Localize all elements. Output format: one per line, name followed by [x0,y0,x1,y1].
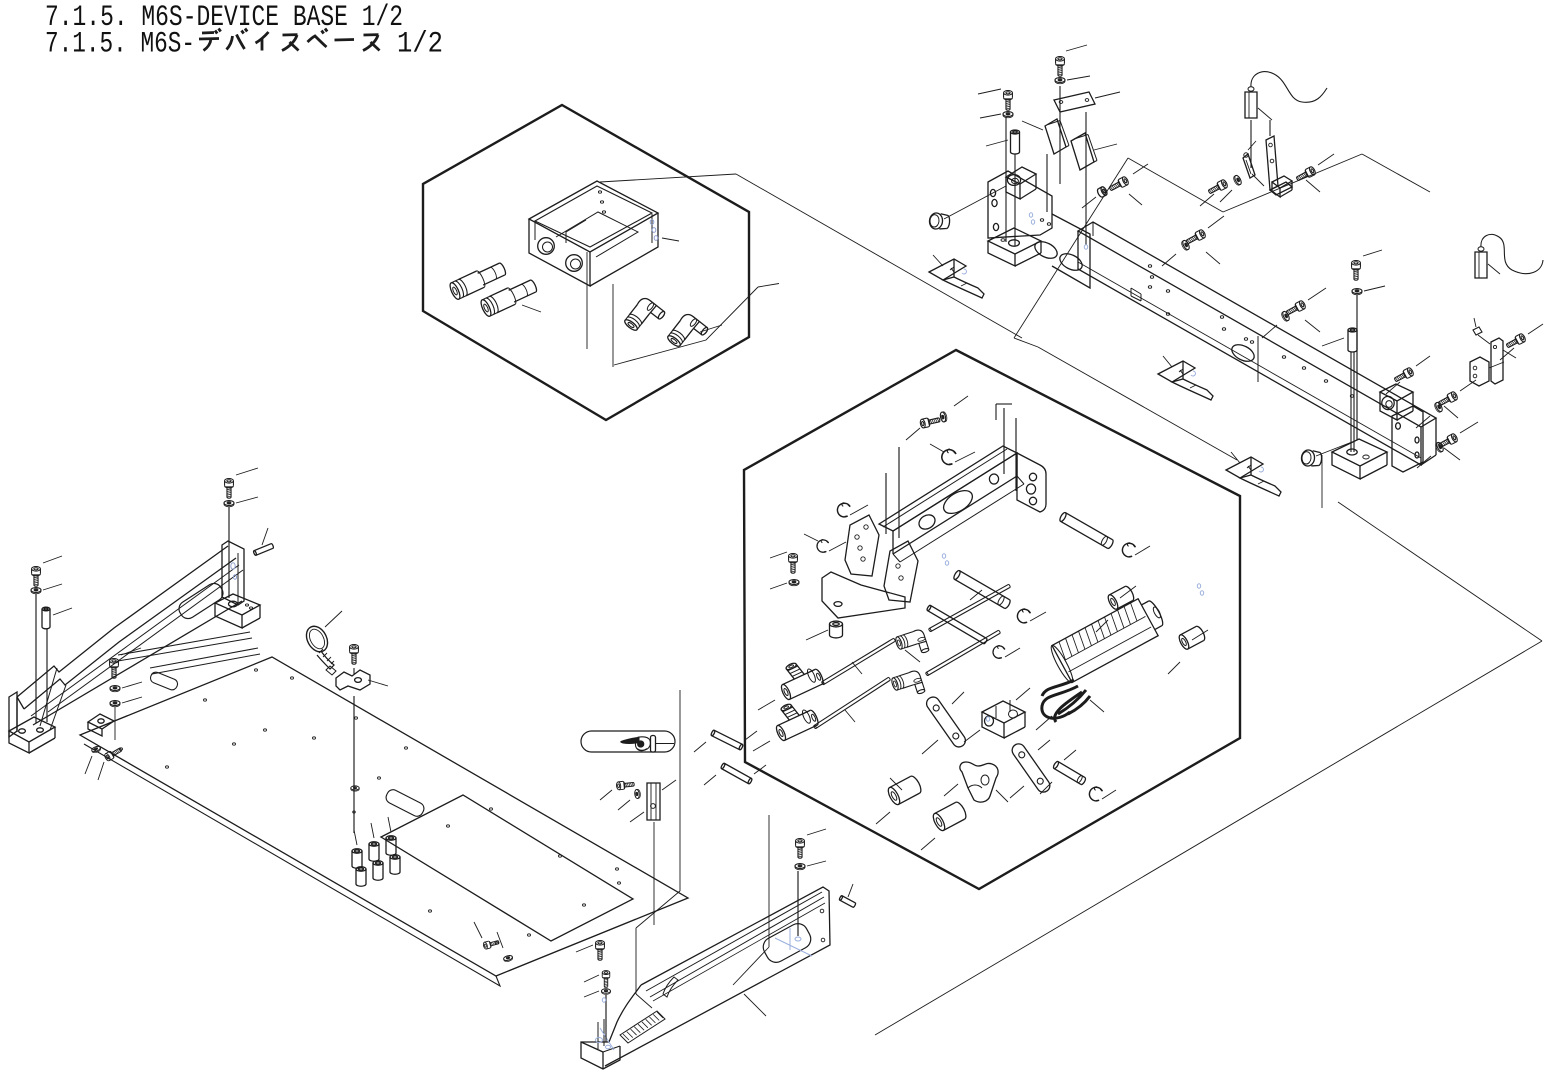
washer G1 [1433,401,1443,413]
e-clip 3 [816,538,829,553]
washer D1 [1180,239,1190,251]
roller 3 [886,774,923,806]
leader H1 [1528,324,1543,334]
standoff K [42,607,50,629]
plate holes [255,669,258,671]
link 2 [1010,741,1053,794]
plate slot 2 [384,788,426,819]
tee fitting 1 [773,654,825,700]
sensor 1 [1245,92,1257,118]
leaders P1 [807,829,826,835]
dot N [353,811,356,813]
screw G0 [1393,367,1415,384]
axis N [353,668,355,674]
sub panel [381,795,633,941]
pin J [253,543,274,555]
L-bracket assy [1266,136,1278,190]
left rail [17,546,228,697]
e-clip 1 [940,447,957,465]
title line 2 kana [199,29,221,51]
washer F1 [1352,289,1362,295]
cam leaders [944,784,958,796]
fitting leaders [758,700,775,710]
leaders B1 [1066,45,1087,51]
screw H1 [1505,333,1527,350]
link leaders 2 [1010,786,1024,798]
washer L2 [110,686,120,692]
elbow fitting 2 [666,312,709,356]
washer C1 [1232,174,1242,186]
panel zigzag left [679,690,681,891]
e-clip 2 [836,502,851,518]
leaders C1 [1200,194,1214,206]
e-clip 6 [1120,541,1136,558]
washer I2 [789,580,799,586]
clevis leaders [1016,688,1030,700]
screw G1 [1437,391,1459,408]
leader standoff K [53,608,72,615]
axes C [1250,120,1252,168]
clevis [982,701,1025,723]
clevis pin 3 [1059,512,1115,550]
leader elbow2 [700,325,722,332]
leader fitting2 [522,305,541,312]
screw Q1 [596,941,605,961]
screw B1 [1056,57,1065,77]
screw D2 [1108,176,1130,193]
knob2 leader [1316,442,1352,456]
axes K [35,594,37,723]
roller 2 [1177,625,1206,651]
hand bubble [581,731,675,752]
clip H [1473,327,1482,335]
straight fitting 1 [448,260,508,301]
actuator cable [1042,680,1090,722]
screw I2 [789,554,798,574]
screw K1 [32,567,41,587]
link 1 [924,695,968,750]
leaders D1 [1162,254,1176,266]
washer P1 [795,864,805,870]
hexagon callout B [744,350,1240,889]
tee fitting 2 [768,695,820,741]
dowel pin 2 leaders [704,775,716,785]
leader K1 [43,556,62,563]
washer N2 [351,786,360,791]
plate screw small [483,939,500,950]
screw L1 [110,659,119,679]
washer I1 [939,411,947,422]
leader pin J [262,528,268,545]
leaders G1 [1460,380,1476,391]
screw B2 [1004,91,1013,111]
washer B1 [1055,78,1065,84]
cable tie [302,623,331,656]
pin5 leaders [1064,750,1076,760]
far right block [1470,357,1489,386]
main rail [1078,222,1436,427]
tube 1 [821,638,895,685]
clamp L [88,714,114,729]
hexagon callout A [423,105,749,420]
standoff B [1011,130,1020,154]
leader standoff B [986,140,1008,146]
left assembly block [988,171,1052,238]
tube 2 [928,584,1010,632]
leader L [121,648,141,655]
mount strips [118,632,250,655]
leaders D2 [1082,197,1096,208]
reed switch 1 [1243,154,1255,178]
gusset leader 2 [1163,356,1172,367]
clevis pin 2 [926,605,987,644]
e-clip 4 [1015,607,1031,624]
washer E1 [1280,310,1290,322]
gusset bracket 3 [1226,457,1281,496]
axis F [1356,295,1358,440]
axis lines B [1005,117,1007,242]
roller 1 [1106,585,1135,611]
plate flange [84,744,500,986]
washer B2 [1003,112,1013,118]
slab 2 [1071,133,1094,170]
thumb knob 2 [1301,449,1322,467]
gusset bracket 2 [1158,361,1213,400]
cam [960,762,998,802]
leader G0 [1386,382,1400,394]
sensor plate bar [1054,92,1095,112]
clamp N [336,670,370,690]
screw I1 [920,415,941,428]
screw G2 [1437,433,1459,450]
tube 4 [925,630,1000,676]
screw Q2 [602,971,610,988]
leaders Q [576,945,593,952]
knob leader [944,186,1006,219]
clevis pin 1 [953,570,1012,610]
plate slot 1 [149,671,179,692]
reed switch 2 [647,783,660,820]
screw D1 [1185,229,1207,246]
plate washer small [503,955,513,963]
link leaders 1 [922,740,938,754]
slab 1 [1045,119,1066,154]
standoff D [1348,328,1357,352]
leaders E1 [1262,325,1277,338]
leaders M [85,756,92,774]
tall rod [1350,352,1352,452]
junction box [529,181,658,252]
thumb knob [929,212,950,230]
pin 5 [1053,761,1087,786]
plate small leaders [474,922,482,938]
leader I1 [906,428,920,440]
leader pin R [848,884,853,897]
roller leaders 2 [876,812,890,824]
dowel pin 2 [720,763,752,784]
channel frame [879,446,1017,531]
leaders F1 [1363,250,1382,256]
leader from box [600,174,736,182]
svg-text:7.1.5. M6S-: 7.1.5. M6S- [45,28,195,62]
cable leaders [1036,716,1052,730]
washer Q2 [601,989,610,995]
panel outline 2 [1128,158,1223,212]
far right plate [1491,338,1503,384]
screw M2 [104,746,123,762]
gusset leader 3 [1231,452,1240,463]
washer S1 [634,789,640,799]
screw E1 [1285,300,1307,317]
screw S1 [616,780,634,790]
spacer leader [806,630,828,640]
screw C1 [1207,179,1229,196]
washer K1 [31,588,41,594]
blue witness marks [1029,213,1032,217]
pin R [839,895,856,907]
roller 4 [931,800,968,832]
elbow fitting 1 [623,296,666,340]
leader to elbow [614,287,758,365]
gusset bracket 1 [929,259,984,298]
svg-text:1/2: 1/2 [397,28,443,62]
nut D2 [1096,186,1108,198]
washer G2 [1434,441,1444,453]
actuator [1048,593,1169,685]
elbow fitting 3 [894,628,929,660]
panel outline 3 [1338,502,1542,641]
straight fitting 2 [479,277,539,318]
leader I2 [770,552,787,558]
screw F1 [1352,261,1361,281]
base plate [80,657,688,976]
right assembly block [1380,384,1413,401]
spacer [830,621,843,638]
callout leader A [736,174,1022,338]
dowel pin 1 [711,730,744,751]
rod leader [1322,338,1344,346]
bottom rail [605,887,830,1066]
leader J1 [236,468,258,475]
washer M1 [91,745,101,753]
screw P1 [796,839,805,859]
roller leaders [1120,586,1136,598]
e-clip 5 [991,644,1005,659]
leader C2 [1318,154,1334,165]
tube 3 [813,677,890,729]
washer L3 [110,701,120,707]
gusset leader 1 [933,255,943,266]
panel outline [1014,158,1128,338]
dowel pin 1 leaders [694,742,706,752]
leaders S1 [600,790,612,800]
leaders G2 [1460,422,1478,433]
e-clip 7 [1087,785,1103,802]
sensor 2 [1475,252,1487,278]
leaders B2 [978,89,1001,94]
standoff group [352,849,362,869]
screw C2 [1295,166,1317,183]
screw J1 [225,479,234,499]
washer J1 [224,501,234,507]
elbow fitting 4 [890,669,925,701]
leader below box [586,252,588,349]
eclip leaders [955,452,975,462]
screw N1 [350,645,359,665]
vertical leaders hex B [885,473,887,534]
